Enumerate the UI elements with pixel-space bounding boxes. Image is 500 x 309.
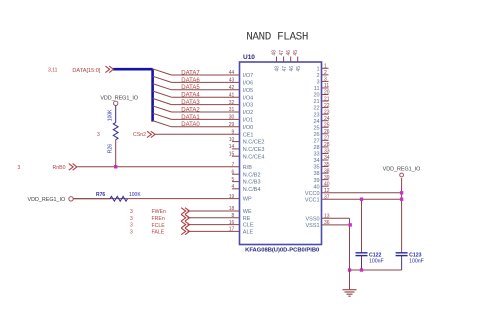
svg-text:3: 3 xyxy=(317,80,320,86)
svg-text:DATA6: DATA6 xyxy=(181,78,200,84)
svg-text:40: 40 xyxy=(324,181,330,187)
svg-text:17: 17 xyxy=(229,227,235,233)
svg-text:20: 20 xyxy=(324,90,330,96)
svg-text:VCC0: VCC0 xyxy=(305,191,320,197)
svg-text:3: 3 xyxy=(130,229,133,235)
svg-text:I/O3: I/O3 xyxy=(243,103,253,109)
svg-text:3: 3 xyxy=(130,216,133,222)
svg-text:1: 1 xyxy=(317,66,320,72)
svg-text:I/O6: I/O6 xyxy=(243,81,253,87)
svg-text:VDD_REG1_IO: VDD_REG1_IO xyxy=(383,167,421,173)
svg-text:48: 48 xyxy=(275,66,281,72)
svg-text:41: 41 xyxy=(229,92,235,98)
svg-text:25: 25 xyxy=(313,125,319,131)
svg-text:11: 11 xyxy=(314,86,320,92)
svg-text:40: 40 xyxy=(313,184,319,190)
svg-text:7: 7 xyxy=(232,162,235,168)
svg-text:FCLE: FCLE xyxy=(152,223,166,229)
svg-text:21: 21 xyxy=(324,96,330,102)
svg-text:25: 25 xyxy=(324,122,330,128)
svg-text:WE: WE xyxy=(243,209,252,215)
svg-text:27: 27 xyxy=(324,136,330,142)
svg-text:6: 6 xyxy=(232,169,235,175)
svg-text:23: 23 xyxy=(324,109,330,115)
svg-text:DATA5: DATA5 xyxy=(181,85,200,91)
svg-text:8: 8 xyxy=(232,213,235,219)
svg-text:R26: R26 xyxy=(108,144,114,153)
svg-text:FALE: FALE xyxy=(152,230,165,236)
svg-text:CSn2: CSn2 xyxy=(133,132,146,138)
svg-text:22: 22 xyxy=(313,106,319,112)
svg-text:I/O1: I/O1 xyxy=(243,118,253,124)
svg-text:N.C/B4: N.C/B4 xyxy=(243,187,261,193)
svg-text:VDD_REG1_IO: VDD_REG1_IO xyxy=(100,96,138,102)
svg-text:I/O5: I/O5 xyxy=(243,88,253,94)
svg-text:28: 28 xyxy=(313,145,319,151)
svg-text:N.C/CE2: N.C/CE2 xyxy=(243,140,265,146)
svg-text:36: 36 xyxy=(324,220,330,226)
svg-text:RnB0: RnB0 xyxy=(53,165,66,171)
svg-text:16: 16 xyxy=(229,220,235,226)
svg-text:I/O2: I/O2 xyxy=(243,110,253,116)
svg-text:N.C/CE3: N.C/CE3 xyxy=(243,147,265,153)
svg-text:100K: 100K xyxy=(108,109,114,121)
svg-text:12: 12 xyxy=(324,188,330,194)
svg-text:37: 37 xyxy=(324,194,330,200)
svg-text:39: 39 xyxy=(324,175,330,181)
svg-text:24: 24 xyxy=(313,119,319,125)
svg-text:VSS0: VSS0 xyxy=(306,216,320,222)
svg-text:11: 11 xyxy=(324,83,329,89)
svg-text:I/O7: I/O7 xyxy=(243,73,253,79)
svg-text:42: 42 xyxy=(229,85,235,91)
svg-text:34: 34 xyxy=(313,158,319,164)
svg-text:DATA4: DATA4 xyxy=(181,93,200,99)
svg-text:22: 22 xyxy=(324,103,330,109)
svg-text:N.C/B3: N.C/B3 xyxy=(243,180,261,186)
svg-text:3,11: 3,11 xyxy=(48,68,58,74)
svg-text:46: 46 xyxy=(289,66,295,72)
svg-text:ALE: ALE xyxy=(243,230,254,236)
svg-text:19: 19 xyxy=(229,194,235,200)
svg-text:FREn: FREn xyxy=(152,216,165,222)
svg-text:DATA1: DATA1 xyxy=(181,115,200,121)
svg-text:32: 32 xyxy=(229,100,235,106)
svg-text:31: 31 xyxy=(229,107,235,113)
svg-text:29: 29 xyxy=(229,122,235,128)
svg-text:VSS1: VSS1 xyxy=(306,223,320,229)
svg-text:NAND FLASH: NAND FLASH xyxy=(246,31,308,43)
svg-text:35: 35 xyxy=(324,162,330,168)
svg-text:VDD_REG1_IO: VDD_REG1_IO xyxy=(28,197,66,203)
svg-text:10: 10 xyxy=(229,137,235,143)
svg-text:39: 39 xyxy=(313,178,319,184)
svg-text:35: 35 xyxy=(313,165,319,171)
svg-text:9: 9 xyxy=(232,129,235,135)
svg-text:I/O0: I/O0 xyxy=(243,125,253,131)
svg-text:FWEn: FWEn xyxy=(152,209,167,215)
svg-text:DATA[15:0]: DATA[15:0] xyxy=(72,68,101,74)
svg-text:48: 48 xyxy=(272,50,278,56)
svg-text:CLE: CLE xyxy=(243,223,254,229)
svg-text:KFAG08B(U)0D-PCB0/PIB0: KFAG08B(U)0D-PCB0/PIB0 xyxy=(245,247,319,253)
svg-text:20: 20 xyxy=(313,93,319,99)
svg-text:45: 45 xyxy=(293,50,299,56)
svg-text:24: 24 xyxy=(324,116,330,122)
svg-text:VCC1: VCC1 xyxy=(305,197,320,203)
svg-text:CE1: CE1 xyxy=(243,132,254,138)
svg-text:WP: WP xyxy=(243,197,252,203)
svg-text:15: 15 xyxy=(229,151,235,157)
svg-text:2: 2 xyxy=(317,73,320,79)
svg-text:3: 3 xyxy=(324,77,327,83)
svg-text:46: 46 xyxy=(286,50,292,56)
svg-text:2: 2 xyxy=(324,70,327,76)
svg-text:DATA7: DATA7 xyxy=(181,70,200,76)
svg-text:45: 45 xyxy=(296,66,302,72)
svg-text:R/B: R/B xyxy=(243,165,253,171)
svg-text:DATA0: DATA0 xyxy=(181,122,200,128)
svg-text:26: 26 xyxy=(324,129,330,135)
svg-text:3: 3 xyxy=(97,132,100,138)
svg-text:33: 33 xyxy=(313,152,319,158)
svg-text:U10: U10 xyxy=(243,54,255,61)
svg-text:28: 28 xyxy=(324,142,330,148)
svg-text:3: 3 xyxy=(18,165,21,171)
svg-text:N.C/CE4: N.C/CE4 xyxy=(243,154,265,160)
svg-text:100nF: 100nF xyxy=(369,259,384,265)
svg-text:30: 30 xyxy=(229,115,235,121)
svg-text:N.C/B2: N.C/B2 xyxy=(243,172,261,178)
svg-text:DATA2: DATA2 xyxy=(181,107,200,113)
svg-text:47: 47 xyxy=(279,50,285,56)
svg-text:R76: R76 xyxy=(96,192,105,198)
svg-text:3: 3 xyxy=(130,209,133,215)
svg-text:DATA3: DATA3 xyxy=(181,100,200,106)
svg-text:4: 4 xyxy=(232,184,235,190)
svg-text:13: 13 xyxy=(324,214,330,220)
svg-text:38: 38 xyxy=(313,171,319,177)
svg-text:14: 14 xyxy=(229,144,235,150)
svg-text:34: 34 xyxy=(324,155,330,161)
svg-text:47: 47 xyxy=(282,66,288,72)
svg-text:18: 18 xyxy=(229,206,235,212)
svg-text:I/O4: I/O4 xyxy=(243,95,253,101)
svg-text:27: 27 xyxy=(313,138,319,144)
svg-text:3: 3 xyxy=(130,223,133,229)
svg-text:33: 33 xyxy=(324,149,330,155)
svg-text:5: 5 xyxy=(232,177,235,183)
svg-text:44: 44 xyxy=(229,70,235,76)
svg-text:100nF: 100nF xyxy=(409,259,424,265)
svg-text:RE: RE xyxy=(243,216,251,222)
svg-text:38: 38 xyxy=(324,168,330,174)
svg-text:23: 23 xyxy=(313,112,319,118)
svg-text:43: 43 xyxy=(229,78,235,84)
svg-text:100K: 100K xyxy=(129,192,141,198)
svg-text:21: 21 xyxy=(313,99,319,105)
svg-text:26: 26 xyxy=(313,132,319,138)
svg-text:1: 1 xyxy=(324,64,327,70)
